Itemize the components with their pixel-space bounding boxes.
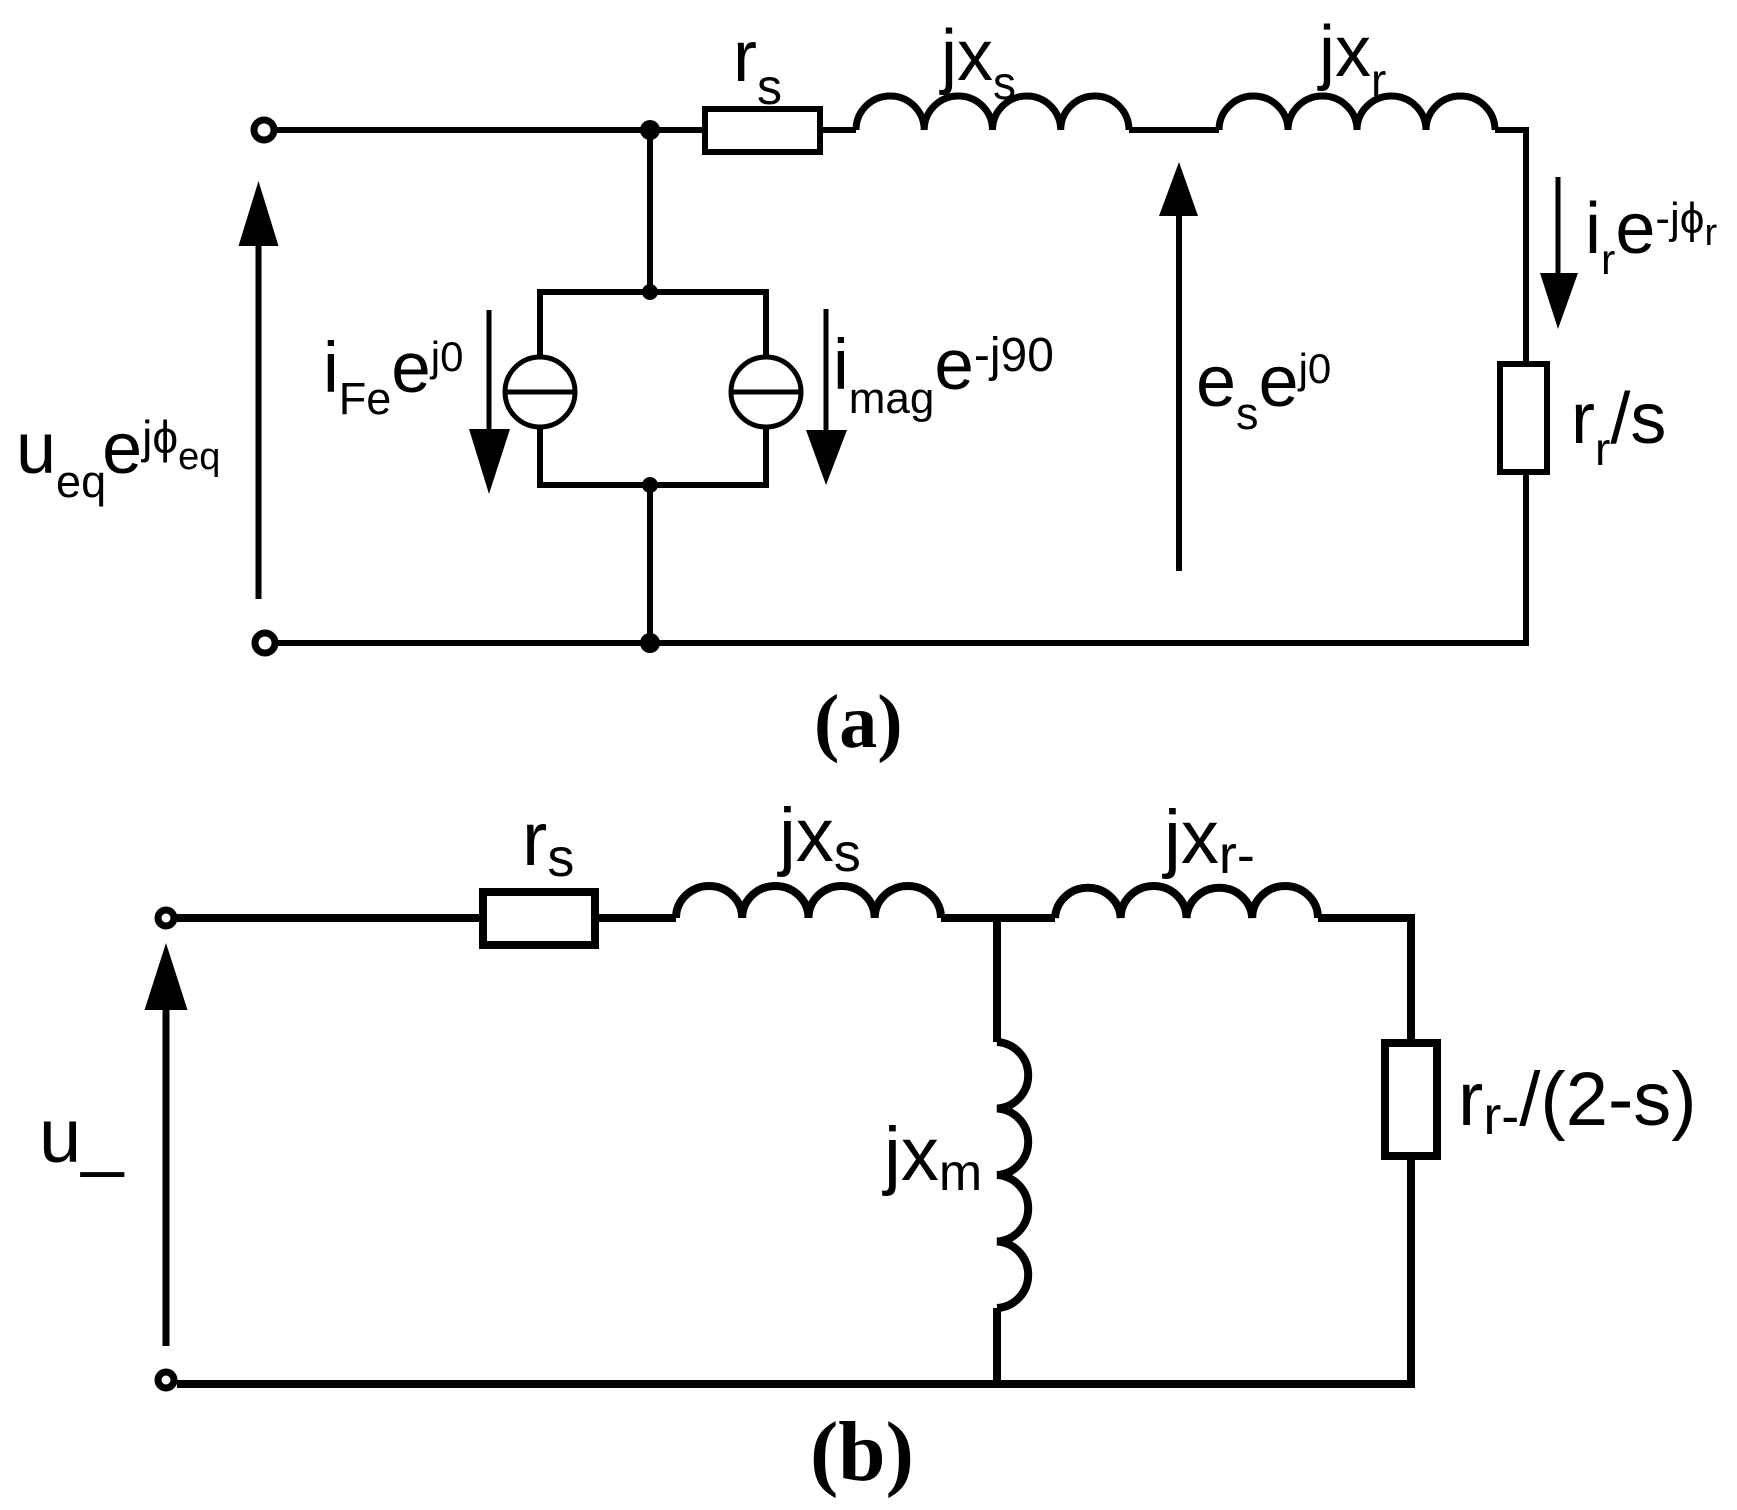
arrow e_s line <box>1176 216 1182 571</box>
svg-text:jxm: jxm <box>882 1112 982 1202</box>
current source i_mag circle (a) <box>731 357 801 427</box>
svg-text:iFeej0: iFeej0 <box>323 329 464 424</box>
arrow i_r head <box>1540 273 1578 329</box>
wire source box to bottom wire (a) <box>647 485 653 643</box>
source box right wires (a) <box>763 289 769 488</box>
wire resistor to inductor (b) <box>595 914 676 922</box>
inductor jx_r (a) <box>1219 96 1495 130</box>
arrow i_mag head <box>806 430 847 485</box>
source box top wire (a) <box>540 289 766 295</box>
wire top-left to node (a) <box>276 127 705 133</box>
wire jx_m to bottom wire (b) <box>993 1308 1001 1384</box>
wire jx_s to jx_r- with node (b) <box>941 914 1055 922</box>
wire node down to jx_m (b) <box>993 918 1001 1042</box>
inductor jx_s (a) <box>856 96 1129 130</box>
svg-text:ire-jϕr: ire-jϕr <box>1585 189 1717 284</box>
wire resistor to inductor (a) <box>820 127 856 133</box>
wire resistor to bottom-right corner and bottom wire (b) <box>177 1156 1411 1384</box>
arrow i_r line <box>1556 177 1561 280</box>
junction dot bottom wire (a) <box>640 633 660 653</box>
current source i_Fe bar <box>505 390 575 395</box>
wire jx_r- to top-right corner down (b) <box>1318 918 1411 1043</box>
arrow u_eq head <box>239 181 279 246</box>
arrow i_Fe line <box>487 310 492 440</box>
svg-text:rr/s: rr/s <box>1571 379 1666 475</box>
arrow i_Fe head <box>469 429 510 494</box>
inductor jx_r- (b) <box>1055 886 1318 918</box>
svg-text:u_: u_ <box>39 1094 125 1179</box>
current source i_Fe circle (a) <box>505 357 575 427</box>
svg-text:jxr: jxr <box>1317 12 1386 106</box>
svg-text:rs: rs <box>522 797 574 888</box>
resistor r_s (a) <box>705 109 820 152</box>
terminal T2 (a) <box>255 633 275 653</box>
resistor r_r-/(2-s) (b) <box>1385 1043 1437 1156</box>
svg-text:image-j90: image-j90 <box>833 326 1054 423</box>
inductor jx_m (b) <box>997 1042 1028 1308</box>
inductor jx_s (b) <box>676 886 941 918</box>
terminal T1 (a) <box>254 120 274 140</box>
wire resistor bottom to bottom-right corner and bottom wire (a) <box>278 472 1526 643</box>
terminal T3 (b) <box>158 910 174 926</box>
svg-text:jxr-: jxr- <box>1162 795 1255 885</box>
svg-text:jxs: jxs <box>939 16 1016 109</box>
svg-text:(a): (a) <box>814 680 903 764</box>
arrow u_ head (b) <box>145 943 188 1010</box>
junction dot bottom of source box <box>642 477 658 493</box>
node A junction dot <box>640 120 660 140</box>
arrow e_s head <box>1159 162 1198 216</box>
svg-text:(b): (b) <box>810 1405 914 1499</box>
source box bottom wire (a) <box>540 482 766 488</box>
arrow u_ line (b) <box>163 1010 170 1346</box>
wire node A down to source box (a) <box>647 130 653 292</box>
arrow u_eq line <box>256 244 262 599</box>
svg-text:rr-/(2-s): rr-/(2-s) <box>1458 1057 1697 1146</box>
wire top-left (b) <box>177 914 483 922</box>
resistor r_s (b) <box>483 892 595 945</box>
source box left wires (a) <box>537 289 543 488</box>
svg-text:esej0: esej0 <box>1196 342 1331 439</box>
resistor r_r/s (a) <box>1500 364 1547 472</box>
wire between inductors (a) <box>1129 127 1219 133</box>
svg-text:jxs: jxs <box>777 793 861 883</box>
wire jx_r to top-right corner and down (a) <box>1495 127 1529 364</box>
svg-text:rs: rs <box>733 17 782 115</box>
terminal T4 (b) <box>158 1372 174 1388</box>
arrow i_mag line <box>824 309 829 440</box>
svg-text:ueqejϕeq: ueqejϕeq <box>16 409 220 507</box>
current source i_mag bar <box>731 390 801 395</box>
junction dot top of source box <box>642 284 658 300</box>
